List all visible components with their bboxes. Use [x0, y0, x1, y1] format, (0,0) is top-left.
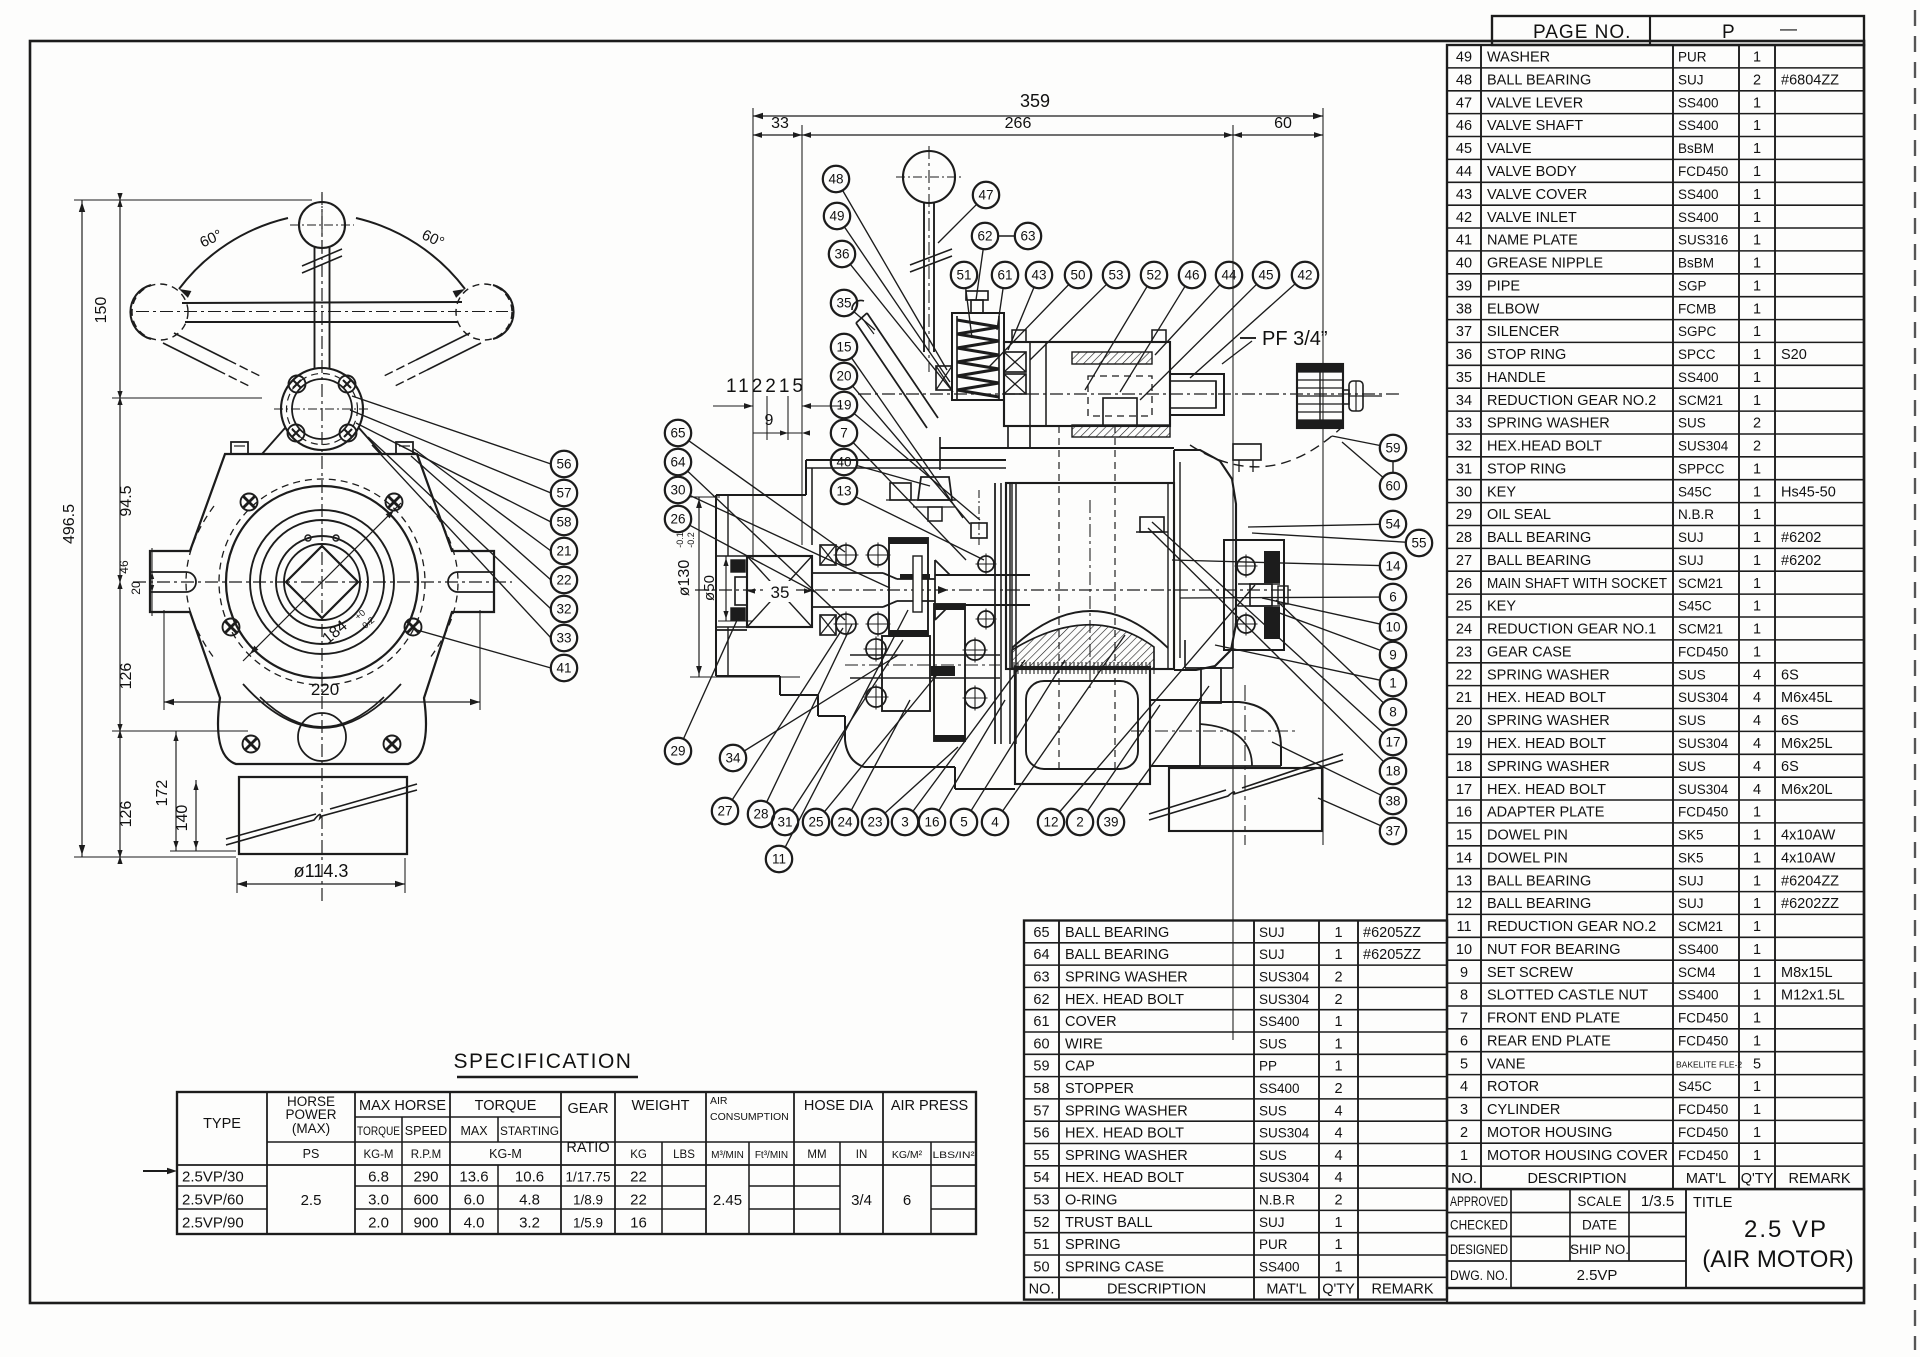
- svg-text:1: 1: [1753, 645, 1761, 661]
- svg-text:SUS: SUS: [1259, 1103, 1287, 1118]
- svg-text:42: 42: [1297, 268, 1312, 283]
- svg-text:51: 51: [956, 268, 971, 283]
- svg-text:21: 21: [556, 544, 571, 559]
- svg-text:1: 1: [1753, 210, 1761, 226]
- left wing slot: [150, 572, 196, 592]
- outlet boss: [1150, 699, 1200, 701]
- svg-text:6.0: 6.0: [464, 1192, 485, 1209]
- balloon 26: [665, 506, 691, 532]
- spring case: [952, 313, 1004, 400]
- balloon 3: [892, 809, 918, 835]
- flange centerlines: [274, 408, 370, 410]
- svg-text:6: 6: [1460, 1033, 1468, 1049]
- balloon 15: [831, 334, 857, 360]
- svg-text:5: 5: [1460, 1056, 1468, 1072]
- balloon 25: [803, 809, 829, 835]
- main shaft: [812, 572, 883, 574]
- svg-text:46: 46: [1184, 268, 1199, 283]
- svg-text:SILENCER: SILENCER: [1487, 324, 1560, 340]
- balloon 28: [748, 801, 774, 827]
- bottom strip: [1447, 1288, 1864, 1303]
- svg-text:1/8.9: 1/8.9: [573, 1193, 603, 1208]
- svg-text:4.8: 4.8: [519, 1192, 540, 1209]
- svg-text:1: 1: [1753, 95, 1761, 111]
- svg-text:2: 2: [1334, 1081, 1342, 1097]
- svg-text:GEAR CASE: GEAR CASE: [1487, 645, 1572, 661]
- svg-text:32: 32: [556, 602, 571, 617]
- svg-text:1: 1: [1753, 347, 1761, 363]
- svg-text:HEX. HEAD BOLT: HEX. HEAD BOLT: [1487, 690, 1606, 706]
- balloon 58: [551, 509, 577, 535]
- svg-text:2: 2: [1460, 1125, 1468, 1141]
- balloon 63: [1015, 223, 1041, 249]
- balloon 40: [831, 449, 857, 475]
- svg-text:11: 11: [1456, 919, 1471, 935]
- balloon 60: [1380, 473, 1406, 499]
- svg-text:SPRING WASHER: SPRING WASHER: [1487, 759, 1610, 775]
- svg-text:62: 62: [977, 229, 992, 244]
- extension lines: [752, 108, 754, 560]
- valve flange bolts: [1012, 330, 1026, 342]
- balloon 6: [1380, 584, 1406, 610]
- air passage hidden lines: [1058, 426, 1060, 768]
- svg-text:SUJ: SUJ: [1678, 530, 1704, 545]
- svg-text:1: 1: [1753, 507, 1761, 523]
- balloon 20: [831, 363, 857, 389]
- svg-text:SHIP NO.: SHIP NO.: [1570, 1242, 1629, 1257]
- svg-text:HOSE DIA: HOSE DIA: [804, 1098, 874, 1114]
- svg-text:VANE: VANE: [1487, 1056, 1526, 1072]
- svg-text:30: 30: [1456, 484, 1472, 500]
- svg-text:60: 60: [1033, 1036, 1049, 1052]
- castle nut: [1250, 584, 1272, 606]
- svg-text:COVER: COVER: [1065, 1014, 1117, 1030]
- svg-text:PIPE: PIPE: [1487, 278, 1520, 294]
- valve mounting flange: [281, 368, 363, 450]
- svg-text:33: 33: [771, 115, 789, 132]
- svg-text:SLOTTED CASTLE NUT: SLOTTED CASTLE NUT: [1487, 988, 1648, 1004]
- svg-text:1: 1: [1753, 919, 1761, 935]
- svg-text:M12x1.5L: M12x1.5L: [1781, 988, 1845, 1004]
- balloon 38: [1380, 788, 1406, 814]
- svg-text:5: 5: [1753, 1056, 1761, 1072]
- balloon 36: [829, 241, 855, 267]
- svg-text:ø50: ø50: [701, 575, 718, 601]
- svg-text:#6202: #6202: [1781, 553, 1821, 569]
- balloon 55: [1406, 530, 1432, 556]
- svg-text:ø114.3: ø114.3: [294, 861, 349, 881]
- pipe nipple: [1201, 668, 1221, 703]
- svg-text:REMARK: REMARK: [1371, 1282, 1433, 1298]
- casing outline front: [150, 454, 494, 764]
- svg-text:600: 600: [413, 1192, 438, 1209]
- svg-text:SUS: SUS: [1678, 759, 1706, 774]
- svg-text:14: 14: [1456, 850, 1472, 866]
- svg-text:#6202: #6202: [1781, 530, 1821, 546]
- svg-text:BALL BEARING: BALL BEARING: [1487, 73, 1591, 89]
- svg-text:33: 33: [1456, 416, 1472, 432]
- svg-text:1: 1: [1753, 828, 1761, 844]
- gear case front circles: [219, 479, 425, 685]
- svg-text:54: 54: [1385, 517, 1401, 532]
- svg-text:1: 1: [1753, 622, 1761, 638]
- svg-text:SUS: SUS: [1678, 667, 1706, 682]
- svg-text:1: 1: [1753, 50, 1761, 66]
- balloon 2: [1067, 809, 1093, 835]
- svg-text:MOTOR HOUSING COVER: MOTOR HOUSING COVER: [1487, 1148, 1668, 1164]
- svg-text:4: 4: [1460, 1079, 1468, 1095]
- gear case top: [806, 459, 1006, 461]
- svg-text:SUS304: SUS304: [1259, 992, 1310, 1007]
- svg-text:2: 2: [1076, 815, 1084, 830]
- svg-text:25: 25: [808, 815, 823, 830]
- svg-text:1: 1: [1753, 1102, 1761, 1118]
- svg-text:12: 12: [1043, 815, 1058, 830]
- balloon 61: [992, 262, 1018, 288]
- svg-text:HEX. HEAD BOLT: HEX. HEAD BOLT: [1487, 782, 1606, 798]
- svg-text:290: 290: [413, 1169, 438, 1186]
- svg-text:MAX: MAX: [460, 1124, 488, 1138]
- main centerline: [695, 589, 1292, 591]
- front view centerline vertical: [321, 192, 323, 905]
- svg-text:1: 1: [1334, 1215, 1342, 1231]
- svg-text:4: 4: [1334, 1126, 1342, 1142]
- svg-text:M6x25L: M6x25L: [1781, 736, 1833, 752]
- cover top bolt: [1233, 444, 1261, 460]
- svg-text:SUS304: SUS304: [1259, 1170, 1310, 1185]
- dim 172: [175, 731, 177, 851]
- svg-text:ELBOW: ELBOW: [1487, 301, 1540, 317]
- svg-text:SCM21: SCM21: [1678, 919, 1723, 934]
- svg-text:13: 13: [1456, 873, 1472, 889]
- balloon 1: [1380, 670, 1406, 696]
- svg-text:266: 266: [1005, 115, 1032, 132]
- svg-text:2.5VP/90: 2.5VP/90: [182, 1215, 244, 1232]
- svg-text:53: 53: [1108, 268, 1123, 283]
- svg-text:1: 1: [1334, 1014, 1342, 1030]
- gear case bottom steps: [716, 675, 780, 677]
- rear hub bearing: [1224, 540, 1284, 650]
- silencer break: [1149, 760, 1343, 820]
- svg-text:GEAR: GEAR: [567, 1101, 608, 1117]
- valve body: [1004, 342, 1170, 426]
- svg-text:SUS304: SUS304: [1678, 439, 1729, 454]
- svg-text:1: 1: [1334, 1237, 1342, 1253]
- output socket square: [286, 546, 358, 618]
- svg-text:STOP RING: STOP RING: [1487, 347, 1566, 363]
- svg-text:SS400: SS400: [1678, 988, 1719, 1003]
- elbow: [1200, 702, 1281, 766]
- svg-text:37: 37: [1456, 324, 1472, 340]
- wire dashed: [1190, 428, 1341, 467]
- adapter top plate: [940, 447, 1174, 449]
- svg-text:SUS: SUS: [1678, 416, 1706, 431]
- svg-text:4x10AW: 4x10AW: [1781, 850, 1836, 866]
- svg-text:STOPPER: STOPPER: [1065, 1081, 1134, 1097]
- svg-text:M6x20L: M6x20L: [1781, 782, 1833, 798]
- svg-text:63: 63: [1020, 229, 1035, 244]
- svg-text:220: 220: [311, 680, 339, 699]
- svg-text:ADAPTER PLATE: ADAPTER PLATE: [1487, 805, 1605, 821]
- svg-text:48: 48: [1456, 73, 1472, 89]
- svg-text:NO.: NO.: [1451, 1171, 1477, 1187]
- svg-text:SUS: SUS: [1259, 1036, 1287, 1051]
- svg-text:26: 26: [1456, 576, 1472, 592]
- svg-text:REMARK: REMARK: [1788, 1171, 1850, 1187]
- svg-text:4.0: 4.0: [464, 1215, 485, 1232]
- svg-text:4: 4: [1753, 736, 1761, 752]
- valve shaft bearing right: [1004, 352, 1026, 372]
- svg-text:7: 7: [1460, 1011, 1468, 1027]
- svg-text:BAKELITE FLE-2: BAKELITE FLE-2: [1676, 1059, 1742, 1069]
- svg-text:Q'TY: Q'TY: [1322, 1282, 1355, 1298]
- svg-text:4: 4: [1334, 1103, 1342, 1119]
- parts list table items 65-50: [1024, 921, 1447, 1300]
- svg-text:KEY: KEY: [1487, 484, 1516, 500]
- balloon 47: [973, 182, 999, 208]
- handle ball: [903, 151, 955, 203]
- svg-text:FCD450: FCD450: [1678, 1125, 1728, 1140]
- svg-text:2: 2: [1334, 992, 1342, 1008]
- svg-text:34: 34: [725, 751, 741, 766]
- svg-text:150: 150: [93, 297, 110, 324]
- svg-text:PP: PP: [1259, 1059, 1277, 1074]
- svg-text:35: 35: [771, 583, 790, 602]
- svg-text:56: 56: [1033, 1126, 1049, 1142]
- svg-text:1: 1: [1753, 553, 1761, 569]
- svg-text:10.6: 10.6: [515, 1169, 544, 1186]
- socket: [735, 577, 747, 605]
- front view centerline horizontal: [133, 581, 512, 583]
- balloon 62: [972, 223, 998, 249]
- balloon 59: [1380, 435, 1406, 461]
- shaft key: [900, 574, 930, 579]
- svg-text:4x10AW: 4x10AW: [1781, 828, 1836, 844]
- svg-text:PUR: PUR: [1678, 50, 1707, 65]
- svg-text:1: 1: [1753, 1011, 1761, 1027]
- svg-text:41: 41: [556, 661, 571, 676]
- svg-text:SUS304: SUS304: [1259, 970, 1310, 985]
- svg-text:SUJ: SUJ: [1259, 925, 1285, 940]
- balloon 13: [831, 478, 857, 504]
- balloon 18: [1380, 758, 1406, 784]
- dim 140: [195, 780, 197, 851]
- svg-text:GREASE NIPPLE: GREASE NIPPLE: [1487, 256, 1603, 272]
- svg-text:10: 10: [1456, 942, 1472, 958]
- svg-text:51: 51: [1033, 1237, 1049, 1253]
- svg-text:SPEED: SPEED: [405, 1124, 447, 1138]
- svg-text:1: 1: [1753, 393, 1761, 409]
- svg-text:4: 4: [1753, 690, 1761, 706]
- svg-text:RATIO: RATIO: [566, 1140, 609, 1156]
- svg-text:46: 46: [117, 560, 131, 574]
- svg-text:-0.2: -0.2: [686, 532, 696, 548]
- svg-text:BALL BEARING: BALL BEARING: [1487, 530, 1591, 546]
- svg-text:4: 4: [1334, 1148, 1342, 1164]
- svg-text:61: 61: [1033, 1014, 1049, 1030]
- balloon 33: [551, 625, 577, 651]
- svg-text:50: 50: [1033, 1259, 1049, 1275]
- svg-text:18: 18: [1456, 759, 1472, 775]
- dim phi50: [725, 556, 727, 621]
- dim phi114.3: [236, 858, 238, 893]
- svg-text:37: 37: [1385, 824, 1400, 839]
- svg-text:CONSUMPTION: CONSUMPTION: [710, 1111, 789, 1123]
- svg-text:9: 9: [765, 412, 774, 429]
- balloon 52: [1141, 262, 1167, 288]
- oil seal: [731, 560, 745, 572]
- svg-text:1: 1: [1753, 942, 1761, 958]
- svg-text:TORQUE: TORQUE: [475, 1098, 537, 1114]
- svg-text:SCALE: SCALE: [1577, 1194, 1621, 1209]
- svg-text:AIR PRESS: AIR PRESS: [891, 1098, 968, 1114]
- svg-text:SUJ: SUJ: [1678, 553, 1704, 568]
- reduction gear on main shaft: [889, 538, 928, 636]
- svg-text:7: 7: [840, 426, 848, 441]
- svg-text:39: 39: [1456, 278, 1472, 294]
- balloon 12: [1038, 809, 1064, 835]
- svg-text:1: 1: [1753, 324, 1761, 340]
- svg-text:20: 20: [836, 369, 851, 384]
- svg-text:9: 9: [1460, 965, 1468, 981]
- svg-text:22: 22: [630, 1169, 647, 1186]
- svg-text:6: 6: [903, 1192, 911, 1209]
- svg-text:55: 55: [1033, 1148, 1049, 1164]
- svg-text:20: 20: [129, 581, 143, 595]
- section balloons: [843, 190, 947, 370]
- svg-text:27: 27: [717, 804, 732, 819]
- svg-text:1: 1: [1334, 1036, 1342, 1052]
- balloon 53: [1103, 262, 1129, 288]
- svg-text:SUS316: SUS316: [1678, 233, 1728, 248]
- svg-text:FCD450: FCD450: [1678, 164, 1728, 179]
- handle knob: [299, 202, 345, 248]
- svg-text:BALL BEARING: BALL BEARING: [1065, 947, 1169, 963]
- svg-text:DESCRIPTION: DESCRIPTION: [1107, 1282, 1206, 1298]
- svg-text:SGPC: SGPC: [1678, 324, 1717, 339]
- svg-text:9: 9: [1389, 648, 1397, 663]
- svg-text:SET SCREW: SET SCREW: [1487, 965, 1573, 981]
- svg-text:16: 16: [630, 1215, 647, 1232]
- svg-text:59: 59: [1033, 1059, 1049, 1075]
- balloon 30: [665, 477, 691, 503]
- motor lower housing: [1015, 667, 1150, 784]
- svg-text:SUS: SUS: [1259, 1148, 1287, 1163]
- svg-text:2.5VP/60: 2.5VP/60: [182, 1192, 244, 1209]
- svg-text:PUR: PUR: [1259, 1237, 1288, 1252]
- svg-text:31: 31: [777, 815, 792, 830]
- svg-text:22: 22: [556, 573, 571, 588]
- svg-text:MAX HORSE: MAX HORSE: [359, 1098, 446, 1114]
- svg-text:S45C: S45C: [1678, 1079, 1712, 1094]
- svg-text:1: 1: [1460, 1148, 1468, 1164]
- balloon 9: [1380, 642, 1406, 668]
- svg-text:55: 55: [1411, 536, 1426, 551]
- svg-text:SGP: SGP: [1678, 278, 1707, 293]
- svg-text:2: 2: [1753, 416, 1761, 432]
- svg-text:VALVE SHAFT: VALVE SHAFT: [1487, 118, 1583, 134]
- svg-text:58: 58: [556, 515, 571, 530]
- section dim 359: [753, 115, 1323, 117]
- svg-text:1: 1: [1753, 1148, 1761, 1164]
- casting side lobes dashed: [186, 506, 214, 658]
- top cover bolts: [231, 442, 248, 454]
- svg-text:54: 54: [1033, 1170, 1049, 1186]
- svg-text:DOWEL PIN: DOWEL PIN: [1487, 850, 1568, 866]
- svg-text:15: 15: [1456, 828, 1472, 844]
- balloon 39: [1098, 809, 1124, 835]
- svg-text:1: 1: [1753, 576, 1761, 592]
- cylinder bolt right: [1140, 517, 1164, 532]
- balloon 37: [1380, 818, 1406, 844]
- balloon 29: [665, 738, 691, 764]
- valve inside: [1088, 376, 1152, 416]
- main shaft sleeve: [935, 574, 1030, 576]
- svg-text:SPRING WASHER: SPRING WASHER: [1487, 416, 1610, 432]
- balloon 42: [1292, 262, 1318, 288]
- svg-text:SPRING WASHER: SPRING WASHER: [1487, 667, 1610, 683]
- svg-text:28: 28: [753, 807, 768, 822]
- rear end plate: [1173, 450, 1175, 670]
- lever knob: [852, 300, 864, 310]
- svg-text:1: 1: [1753, 873, 1761, 889]
- svg-text:WEIGHT: WEIGHT: [632, 1098, 690, 1114]
- svg-text:1: 1: [1753, 164, 1761, 180]
- balloon 48: [823, 166, 849, 192]
- svg-text:(MAX): (MAX): [292, 1121, 330, 1136]
- lower gear hub: [882, 636, 930, 711]
- svg-text:53: 53: [1033, 1193, 1049, 1209]
- svg-text:2.5 VP: 2.5 VP: [1744, 1216, 1828, 1243]
- svg-text:MOTOR HOUSING: MOTOR HOUSING: [1487, 1125, 1612, 1141]
- svg-text:NO.: NO.: [1029, 1282, 1055, 1298]
- svg-text:28: 28: [1456, 530, 1472, 546]
- svg-text:2: 2: [1753, 439, 1761, 455]
- svg-text:DESCRIPTION: DESCRIPTION: [1527, 1171, 1626, 1187]
- svg-text:4: 4: [1753, 713, 1761, 729]
- svg-text:TITLE: TITLE: [1693, 1195, 1733, 1211]
- svg-text:4: 4: [1753, 782, 1761, 798]
- balloon 43: [1026, 262, 1052, 288]
- dim 496.5: [81, 200, 83, 857]
- svg-text:SUJ: SUJ: [1678, 73, 1704, 88]
- dowel and bolt on end plate: [971, 523, 987, 538]
- svg-text:33: 33: [556, 631, 571, 646]
- svg-text:AIR: AIR: [710, 1095, 728, 1107]
- svg-text:SPRING WASHER: SPRING WASHER: [1487, 713, 1610, 729]
- valve inlet port: [1170, 374, 1224, 415]
- svg-text:4: 4: [1753, 759, 1761, 775]
- svg-text:FCMB: FCMB: [1678, 301, 1716, 316]
- svg-text:94.5: 94.5: [118, 485, 135, 516]
- svg-text:14: 14: [1385, 559, 1401, 574]
- svg-text:MAIN SHAFT WITH SOCKET: MAIN SHAFT WITH SOCKET: [1487, 576, 1667, 592]
- svg-text:1: 1: [1753, 530, 1761, 546]
- svg-text:#6205ZZ: #6205ZZ: [1363, 947, 1421, 963]
- svg-text:1/3.5: 1/3.5: [1641, 1193, 1674, 1210]
- second shaft: [845, 664, 1000, 666]
- svg-text:BALL BEARING: BALL BEARING: [1487, 896, 1591, 912]
- svg-text:SCM21: SCM21: [1678, 622, 1723, 637]
- svg-text:SS400: SS400: [1678, 187, 1719, 202]
- svg-text:35: 35: [836, 296, 851, 311]
- balloon 65: [665, 420, 691, 446]
- svg-text:NUT FOR BEARING: NUT FOR BEARING: [1487, 942, 1620, 958]
- balloon 45: [1253, 262, 1279, 288]
- svg-text:31: 31: [1456, 461, 1472, 477]
- svg-text:#6205ZZ: #6205ZZ: [1363, 925, 1421, 941]
- svg-text:60: 60: [1274, 115, 1292, 132]
